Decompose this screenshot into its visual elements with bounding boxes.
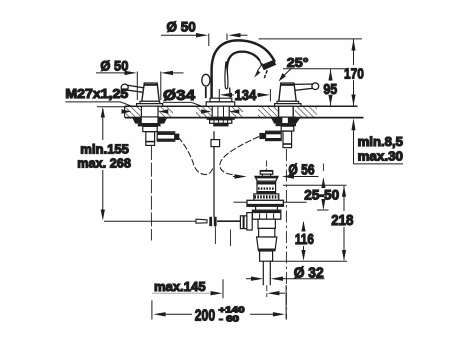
svg-text:25-50: 25-50 bbox=[304, 187, 339, 203]
svg-text:- 60: - 60 bbox=[219, 315, 240, 324]
svg-text:+140: +140 bbox=[219, 306, 246, 315]
svg-text:min.8,5: min.8,5 bbox=[358, 135, 403, 149]
svg-text:M27x1,25: M27x1,25 bbox=[65, 87, 128, 101]
svg-text:Ø 50: Ø 50 bbox=[100, 57, 128, 73]
svg-text:25°: 25° bbox=[287, 55, 309, 70]
svg-text:134: 134 bbox=[235, 87, 257, 104]
svg-text:95: 95 bbox=[323, 81, 337, 98]
svg-text:Ø 56: Ø 56 bbox=[288, 162, 314, 179]
svg-text:max. 268: max. 268 bbox=[77, 157, 131, 171]
svg-text:Ø 50: Ø 50 bbox=[167, 19, 196, 35]
svg-text:min.155: min.155 bbox=[80, 143, 129, 157]
svg-text:Ø 32: Ø 32 bbox=[294, 265, 324, 282]
svg-text:max.145: max.145 bbox=[154, 280, 206, 294]
svg-text:Ø34: Ø34 bbox=[163, 87, 196, 104]
svg-text:200: 200 bbox=[195, 307, 215, 324]
svg-text:max.30: max.30 bbox=[358, 150, 403, 164]
svg-text:170: 170 bbox=[344, 66, 364, 83]
svg-text:218: 218 bbox=[331, 212, 353, 229]
svg-text:116: 116 bbox=[295, 231, 314, 248]
